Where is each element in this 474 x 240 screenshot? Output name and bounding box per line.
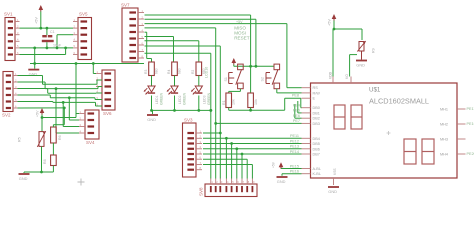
- svg-text:DB1: DB1: [313, 111, 320, 115]
- svg-text:K-BL: K-BL: [313, 172, 321, 176]
- svg-text:PE15: PE15: [290, 164, 299, 168]
- svg-text:+5V: +5V: [328, 19, 332, 26]
- svg-text:GND: GND: [19, 176, 28, 181]
- svg-text:680: 680: [155, 68, 159, 74]
- svg-text:DB4: DB4: [313, 137, 320, 141]
- svg-text:ALCD1602SMALL: ALCD1602SMALL: [369, 97, 429, 106]
- svg-text:PE13: PE13: [290, 145, 299, 149]
- svg-text:PE7: PE7: [293, 119, 300, 123]
- svg-text:RS: RS: [313, 86, 319, 90]
- svg-text:C1: C1: [50, 30, 55, 34]
- svg-text:SV4: SV4: [86, 140, 95, 145]
- svg-text:RESET: RESET: [234, 36, 250, 41]
- svg-text:S2: S2: [261, 77, 265, 81]
- svg-text:MH3: MH3: [440, 138, 448, 142]
- svg-text:DB2: DB2: [313, 117, 320, 121]
- svg-text:R2: R2: [191, 70, 195, 74]
- svg-text:DB6: DB6: [313, 147, 320, 151]
- svg-text:GREEN: GREEN: [183, 92, 187, 105]
- svg-text:VO: VO: [345, 74, 349, 79]
- svg-text:680: 680: [178, 68, 182, 74]
- svg-text:VDD: VDD: [329, 71, 333, 79]
- svg-text:10uF: 10uF: [53, 44, 62, 48]
- svg-text:R4: R4: [167, 70, 171, 74]
- svg-text:GND: GND: [356, 63, 365, 68]
- svg-text:10k: 10k: [232, 99, 236, 105]
- svg-text:680: 680: [202, 68, 206, 74]
- svg-text:+5V: +5V: [272, 161, 276, 168]
- svg-text:+5V: +5V: [236, 20, 243, 24]
- svg-text:R8: R8: [43, 159, 47, 164]
- svg-text:R1: R1: [222, 100, 226, 105]
- svg-text:GREEN: GREEN: [207, 92, 211, 105]
- svg-text:R9: R9: [372, 48, 376, 53]
- svg-text:R6: R6: [58, 135, 62, 140]
- svg-text:PE12: PE12: [290, 139, 299, 143]
- svg-text:PE4: PE4: [293, 104, 300, 108]
- svg-text:SV1: SV1: [4, 12, 13, 17]
- svg-text:+5V: +5V: [35, 17, 39, 24]
- svg-text:PE14: PE14: [290, 150, 299, 154]
- svg-text:VSS: VSS: [333, 168, 337, 175]
- svg-text:PE19: PE19: [467, 122, 474, 126]
- svg-text:PE5: PE5: [293, 109, 300, 113]
- svg-text:PE11: PE11: [290, 134, 299, 138]
- svg-text:PE8: PE8: [292, 94, 299, 98]
- svg-text:MH1: MH1: [440, 108, 448, 112]
- svg-text:R3: R3: [144, 70, 148, 74]
- svg-text:R5: R5: [18, 137, 22, 142]
- svg-text:SV5: SV5: [79, 12, 88, 17]
- svg-text:LED2: LED2: [178, 95, 182, 104]
- svg-text:PE20: PE20: [467, 152, 474, 156]
- svg-text:LED1: LED1: [155, 95, 159, 104]
- svg-text:DB0: DB0: [313, 106, 320, 110]
- svg-text:GREEN: GREEN: [160, 92, 164, 105]
- svg-text:MH4: MH4: [440, 153, 448, 157]
- svg-text:+5V: +5V: [36, 110, 40, 117]
- svg-text:S1: S1: [224, 77, 228, 81]
- svg-text:MH2: MH2: [440, 123, 448, 127]
- svg-text:SV6: SV6: [103, 111, 112, 116]
- svg-text:DB3: DB3: [313, 122, 320, 126]
- svg-text:DB5: DB5: [313, 142, 320, 146]
- svg-text:U$1: U$1: [369, 87, 381, 94]
- svg-text:R/W: R/W: [313, 91, 321, 95]
- svg-text:GND: GND: [277, 179, 286, 184]
- svg-text:SV8: SV8: [199, 187, 204, 196]
- svg-text:A-BL: A-BL: [313, 167, 321, 171]
- svg-text:GND: GND: [147, 117, 156, 122]
- svg-text:LED3: LED3: [202, 95, 206, 104]
- svg-text:SV7: SV7: [121, 3, 130, 8]
- svg-text:GND: GND: [328, 189, 337, 194]
- svg-text:PE17: PE17: [467, 107, 474, 111]
- svg-text:DB7: DB7: [313, 153, 320, 157]
- svg-text:PE6: PE6: [293, 114, 300, 118]
- svg-text:MISO: MISO: [234, 25, 246, 30]
- svg-text:SV2: SV2: [2, 113, 11, 118]
- svg-text:10k: 10k: [254, 99, 258, 105]
- svg-text:SV3: SV3: [184, 118, 193, 123]
- svg-text:PE16: PE16: [290, 170, 299, 174]
